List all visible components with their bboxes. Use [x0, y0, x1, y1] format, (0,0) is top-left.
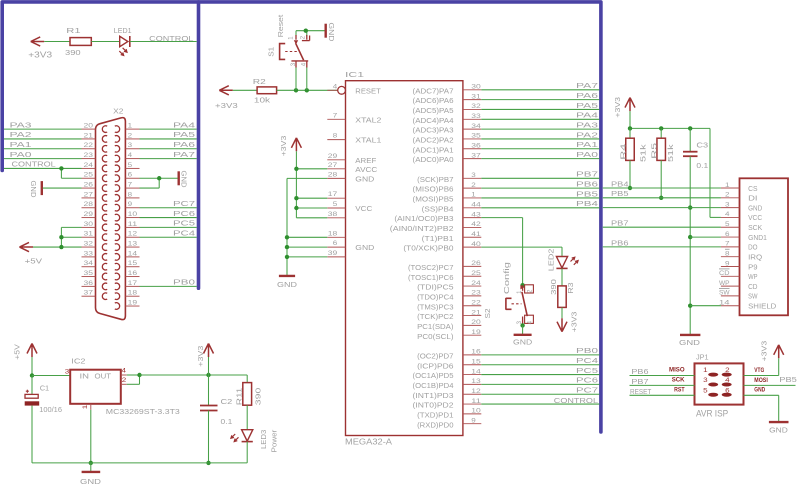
IC1 pin 13 (OC1B)PD4 [413, 378, 482, 390]
svg-text:PA2: PA2 [576, 130, 598, 139]
svg-text:(ADC1)PA1: (ADC1)PA1 [413, 145, 454, 154]
svg-text:33: 33 [471, 113, 481, 120]
wire IC1 PB0 to LED2 [481, 247, 562, 256]
svg-text:Power: Power [269, 429, 278, 452]
wire net PB4 (bus to card CS, via R4) [603, 187, 721, 189]
svg-text:+3V3: +3V3 [569, 312, 578, 333]
IC1 pin 30 (ADC7)PA7 [413, 84, 482, 96]
net label PA5 [173, 130, 195, 139]
net label PA6 [173, 140, 195, 149]
wire net PA1 (bus to X2) [4, 148, 82, 150]
X2 pin 23 [82, 152, 96, 159]
net label PA2 [10, 130, 32, 139]
svg-text:XTAL1: XTAL1 [355, 136, 381, 145]
svg-text:4: 4 [725, 377, 730, 384]
svg-text:DO: DO [748, 243, 758, 252]
wire net CONTROL (bus to X2 pins 24/25) [4, 166, 82, 178]
X2 pin 11 [125, 221, 139, 228]
svg-text:GND: GND [29, 181, 38, 199]
wire net PB6 (bus to card DO) [603, 246, 721, 248]
svg-text:PB7: PB7 [631, 377, 648, 386]
net label RESET [630, 387, 652, 396]
wire net PB5 (bus to card DI, via R5) [603, 197, 721, 199]
svg-text:(ADC7)PA7: (ADC7)PA7 [413, 86, 454, 95]
wire net +3V3 (top rail to VCC) [628, 111, 721, 217]
JP1 signal names [669, 367, 768, 394]
svg-text:19: 19 [128, 299, 138, 306]
svg-text:GND: GND [355, 243, 375, 252]
wire net PA1 (IC1 to bus) [481, 148, 599, 150]
wire R4 to PB4 net [628, 160, 632, 190]
svg-text:27: 27 [328, 162, 338, 169]
svg-text:GND: GND [180, 171, 189, 189]
wire net PA2 (bus to X2) [4, 138, 82, 140]
svg-text:PC6: PC6 [576, 376, 598, 385]
wire net PB5 (JP1 MOSI) [744, 384, 796, 386]
wire net PB5 (IC1 to bus) [481, 197, 599, 199]
svg-text:PC6: PC6 [173, 209, 195, 218]
svg-text:PB6: PB6 [611, 238, 629, 247]
svg-text:PB4: PB4 [576, 199, 598, 208]
svg-text:27: 27 [84, 191, 94, 198]
IC1 pin 41 (T1)PB1 [422, 231, 482, 243]
supply +3V3 (up arrow above C2) [196, 344, 214, 367]
svg-text:CD: CD [719, 270, 730, 277]
net label PB5 [779, 375, 797, 384]
svg-text:(RXD)PD0: (RXD)PD0 [417, 420, 453, 429]
card pin 3 GND [721, 201, 763, 212]
svg-text:36: 36 [84, 280, 94, 287]
svg-text:31: 31 [471, 93, 481, 100]
svg-text:+5V: +5V [13, 344, 22, 360]
svg-text:VCC: VCC [748, 213, 763, 222]
wire net PC7 (X2 to bus) [140, 207, 197, 209]
X2 pin 12 [125, 231, 139, 238]
svg-text:15: 15 [471, 358, 481, 365]
svg-text:9: 9 [725, 260, 730, 267]
IC1 pin 43 (AIN1/OC0)PB3 [394, 211, 481, 223]
wire +3V3 to R2 [233, 89, 257, 91]
svg-text:24: 24 [471, 280, 481, 287]
X2 pin 21 [82, 132, 96, 139]
svg-text:(SCK)PB7: (SCK)PB7 [417, 175, 453, 184]
X2 pin 7 [125, 181, 139, 188]
svg-text:22: 22 [471, 299, 481, 306]
wire net PC4 (X2 to bus) [140, 236, 197, 238]
IC1 pin 7 XTAL2 [327, 112, 381, 124]
X2 pin 13 [125, 240, 139, 247]
wire net PA6 (IC1 to bus) [481, 99, 599, 101]
wire net PC6 (IC1 to bus) [481, 383, 599, 385]
wire ground rail (bottom) [32, 462, 247, 464]
net label PC4 [173, 229, 195, 238]
svg-text:32: 32 [84, 240, 94, 247]
ground (below card connector) [679, 335, 701, 347]
svg-text:S1: S1 [266, 47, 275, 57]
connector X2 (DB37) body [96, 106, 126, 319]
svg-text:3: 3 [65, 369, 70, 376]
X2 pin 32 [82, 240, 96, 247]
wire net PC4 (IC1 to bus) [481, 364, 599, 366]
switch S2 (Config) [483, 262, 534, 325]
svg-text:AVCC: AVCC [355, 165, 378, 174]
wire net PB7 (IC1 to bus) [481, 177, 599, 179]
wire LED2 to R3 [561, 269, 563, 286]
wire net PA4 (IC1 to bus) [481, 118, 599, 120]
svg-text:MEGA32-A: MEGA32-A [345, 438, 393, 447]
resistor R4 51k [618, 128, 647, 162]
svg-text:PA7: PA7 [576, 81, 598, 90]
svg-text:XTAL2: XTAL2 [355, 115, 381, 124]
wire net PA4 (X2 to bus) [140, 128, 197, 130]
wire JP1 VTG to +3V3 [744, 358, 779, 375]
svg-text:PC7: PC7 [173, 199, 195, 208]
svg-text:44: 44 [471, 201, 481, 208]
X2 pin 16 [125, 270, 139, 277]
svg-text:(OC1B)PD4: (OC1B)PD4 [413, 381, 454, 390]
wire X2 pin26 to ground [43, 187, 82, 189]
wire card SHIELD pin to ground rail [690, 305, 721, 307]
net label PA7 [576, 81, 598, 90]
X2 pin 35 [82, 270, 96, 277]
IC1 pin 28 GND [327, 171, 375, 183]
ground (below S2) [513, 335, 533, 347]
X2 pin 33 [82, 250, 96, 257]
svg-text:21: 21 [471, 309, 481, 316]
IC1 pin 27 AVCC [327, 162, 378, 174]
net label PA2 [576, 130, 598, 139]
svg-text:IRQ: IRQ [748, 252, 762, 261]
X2 pin 3 [125, 142, 139, 149]
svg-text:S2: S2 [483, 309, 492, 319]
svg-text:4: 4 [333, 83, 338, 90]
svg-text:PA6: PA6 [173, 140, 195, 149]
svg-text:LED1: LED1 [114, 26, 132, 35]
net label PB7 [631, 377, 648, 386]
net label PA1 [576, 140, 598, 149]
net label PC4 [576, 356, 598, 365]
IC1 GND pin name [355, 243, 375, 252]
net label CONTROL [554, 396, 598, 405]
wire net PC5 (IC1 to bus) [481, 374, 599, 376]
svg-text:PA0: PA0 [10, 150, 32, 159]
svg-text:8: 8 [333, 133, 338, 140]
svg-text:18: 18 [128, 290, 138, 297]
wire card GND1 pin to ground rail [690, 236, 721, 238]
IC1 pin 8 XTAL1 [327, 133, 381, 145]
IC1 pin 34 (ADC3)PA3 [413, 123, 482, 135]
svg-text:23: 23 [471, 290, 481, 297]
svg-text:WP: WP [719, 280, 730, 287]
svg-text:(ICP)PD6: (ICP)PD6 [417, 361, 453, 370]
X2 pin 15 [125, 260, 139, 267]
IC1 pin 35 (ADC2)PA2 [413, 133, 482, 145]
svg-text:5: 5 [703, 387, 708, 394]
svg-text:VTG: VTG [754, 367, 764, 374]
wire net CONTROL (LED1 to bus) [130, 41, 197, 43]
svg-text:PA1: PA1 [10, 140, 32, 149]
svg-text:MOSI: MOSI [754, 377, 768, 384]
card pin 5 SCK [721, 221, 762, 232]
svg-text:(AIN1/OC0)PB3: (AIN1/OC0)PB3 [394, 214, 453, 223]
IC1 pin 15 (ICP)PD6 [417, 358, 481, 370]
svg-text:+3V3: +3V3 [28, 50, 52, 59]
svg-text:PB5: PB5 [611, 189, 629, 198]
wire net PA6 (X2 to bus) [140, 148, 197, 150]
net label PA0 [10, 150, 32, 159]
svg-text:+3V3: +3V3 [196, 346, 205, 367]
supply +5V (up arrow, power input) [13, 344, 37, 360]
wire R5 to PB5 net [659, 160, 663, 200]
net label PC5 [576, 366, 598, 375]
svg-text:PA5: PA5 [173, 130, 195, 139]
net label PB0 [576, 346, 598, 355]
card pin 1 CS [721, 182, 758, 193]
wire S1 to ground [296, 29, 325, 33]
net label PA3 [576, 120, 598, 129]
svg-text:(ADC3)PA3: (ADC3)PA3 [413, 126, 454, 135]
svg-text:3: 3 [128, 142, 133, 149]
svg-text:IC1: IC1 [345, 70, 364, 79]
ground (power supply) [80, 463, 102, 486]
svg-text:LED3: LED3 [259, 430, 268, 449]
svg-text:20: 20 [471, 319, 481, 326]
IC1 pin 10 (TXD)PD1 [417, 408, 481, 420]
svg-text:37: 37 [84, 290, 94, 297]
net label PB6 [611, 238, 629, 247]
svg-text:2: 2 [122, 377, 127, 384]
wire net PA5 (X2 to bus) [140, 138, 197, 140]
IC1 pin 42 (AIN0/INT2)PB2 [390, 221, 482, 233]
svg-text:39: 39 [328, 250, 338, 257]
supply +3V3 (up arrow, right section) [613, 97, 635, 118]
svg-text:(TDO)PC4: (TDO)PC4 [417, 292, 453, 301]
svg-text:3: 3 [725, 201, 730, 208]
IC1 pin 38 VCC [327, 211, 345, 218]
svg-text:R4: R4 [618, 144, 627, 160]
svg-text:(TOSC1)PC6: (TOSC1)PC6 [408, 273, 454, 282]
svg-text:1: 1 [725, 182, 730, 189]
svg-text:GND: GND [327, 23, 336, 43]
wire net PB0 (X2 pin 17 to bus) [140, 285, 197, 287]
ground (below IC1 rail) [277, 276, 298, 289]
svg-text:2: 2 [128, 132, 133, 139]
wire net PA7 (X2 to bus) [140, 158, 197, 160]
svg-text:15: 15 [128, 260, 138, 267]
net label PB7 [611, 219, 629, 228]
wire C3 to ground rail [688, 156, 692, 334]
card pin 6 GND1 [721, 231, 767, 242]
svg-text:AREF: AREF [355, 156, 376, 165]
svg-text:2: 2 [471, 182, 476, 189]
svg-text:30: 30 [84, 221, 94, 228]
svg-text:PB6: PB6 [576, 179, 598, 188]
svg-text:(TXD)PD1: (TXD)PD1 [417, 410, 453, 419]
svg-text:CONTROL: CONTROL [149, 34, 193, 43]
wire net PA0 (bus to X2) [4, 158, 82, 160]
wire net PB7 (bus to card SCK) [603, 226, 721, 228]
X2 pin 27 [82, 191, 96, 198]
wire net PA3 (IC1 to bus) [481, 128, 599, 130]
IC1 pin 2 (MISO)PB6 [413, 182, 482, 194]
X2 pin 20 [82, 123, 96, 130]
wire C1 to ground rail [31, 406, 33, 463]
svg-text:390: 390 [65, 48, 81, 57]
svg-text:C3: C3 [696, 141, 708, 150]
connector JP1 AVR ISP body [695, 353, 744, 419]
ground (rotated, X2 pins 6/7) [179, 171, 189, 189]
wire X2 pins 6,7 to ground [140, 176, 178, 188]
svg-text:SCK: SCK [672, 377, 685, 384]
svg-text:3: 3 [471, 172, 476, 179]
ground (below JP1) [769, 422, 789, 434]
svg-text:26: 26 [471, 260, 481, 267]
wire net PB4 (IC1 to bus) [481, 207, 599, 209]
svg-text:SW: SW [748, 292, 758, 301]
svg-text:17: 17 [328, 191, 338, 198]
wire +5V to IC2 IN and C1 [30, 357, 70, 394]
wire IC1 PB3 to S2 [481, 218, 525, 288]
svg-text:100/16: 100/16 [39, 405, 62, 414]
svg-text:PA0: PA0 [576, 150, 598, 159]
IC1 pin 9 (RXD)PD0 [417, 417, 481, 429]
X2 pin 19 [125, 299, 139, 306]
wire net PC6 (X2 to bus) [140, 217, 197, 219]
resistor R3 390 [549, 279, 575, 307]
svg-text:IC2: IC2 [71, 356, 85, 365]
svg-text:PA4: PA4 [173, 120, 195, 129]
svg-text:0.1: 0.1 [221, 417, 233, 426]
svg-text:(T1)PB1: (T1)PB1 [422, 234, 454, 243]
IC1 pin 5 VCC [327, 201, 345, 208]
svg-text:14: 14 [128, 250, 138, 257]
svg-text:(SS)PB4: (SS)PB4 [422, 204, 454, 213]
svg-text:+3V3: +3V3 [613, 97, 622, 118]
svg-text:5: 5 [128, 162, 133, 169]
wire net PA3 (bus to X2) [4, 128, 82, 130]
svg-text:CS: CS [748, 184, 757, 193]
net label PB6 [631, 367, 648, 376]
svg-text:390: 390 [254, 388, 263, 406]
card pin 7 DO [721, 241, 758, 252]
supply +3V3 (left arrow at R2) [215, 86, 238, 110]
svg-text:36: 36 [471, 142, 481, 149]
net label PA0 [576, 150, 598, 159]
svg-text:(ADC2)PA2: (ADC2)PA2 [413, 136, 454, 145]
X2 pin 5 [125, 162, 139, 169]
ground (rotated, at S1) [326, 23, 336, 43]
svg-text:4: 4 [122, 368, 127, 375]
X2 pin 36 [82, 280, 96, 287]
wire net PB7 (to JP1 SCK) [630, 384, 695, 386]
svg-text:PA4: PA4 [576, 111, 598, 120]
svg-text:1: 1 [471, 192, 476, 199]
svg-text:42: 42 [471, 221, 481, 228]
net label PB4 [576, 199, 598, 208]
IC1 pin 23 (TDO)PC4 [417, 290, 481, 302]
X2 pin 25 [82, 172, 96, 179]
IC1 pin 33 (ADC4)PA4 [413, 113, 482, 125]
net label PB0 [173, 278, 195, 287]
svg-text:PA7: PA7 [173, 150, 195, 159]
wire card GND pin to ground rail [603, 207, 721, 209]
IC1 pin 24 (TDI)PC5 [417, 280, 481, 292]
svg-text:PA3: PA3 [10, 120, 32, 129]
net label PA6 [576, 91, 598, 100]
svg-text:8: 8 [725, 250, 730, 257]
svg-text:26: 26 [84, 181, 94, 188]
supply +3V3 (up arrow at JP1 VTG) [759, 341, 783, 362]
svg-text:9: 9 [128, 201, 133, 208]
svg-text:7: 7 [128, 181, 133, 188]
svg-text:22: 22 [84, 142, 94, 149]
resistor R5 51k [649, 128, 675, 162]
svg-text:2: 2 [725, 192, 730, 199]
svg-text:PC7: PC7 [576, 386, 598, 395]
svg-text:13: 13 [128, 240, 138, 247]
net label PC6 [576, 376, 598, 385]
svg-text:RESET: RESET [630, 387, 652, 396]
svg-text:CONTROL: CONTROL [12, 160, 56, 169]
svg-text:DI: DI [748, 194, 757, 203]
svg-text:14: 14 [471, 368, 481, 375]
net label PA7 [173, 150, 195, 159]
JP1 pads [708, 373, 732, 397]
svg-text:MC33269ST-3.3T3: MC33269ST-3.3T3 [106, 407, 180, 416]
svg-text:PC5: PC5 [576, 366, 598, 375]
svg-text:+3V3: +3V3 [759, 341, 768, 362]
svg-text:(MOSI)PB5: (MOSI)PB5 [413, 195, 454, 204]
svg-text:JP1: JP1 [696, 353, 709, 362]
wire R2 to IC1 RESET (net with S1) [277, 88, 338, 92]
X2 pin 2 [125, 132, 139, 139]
svg-text:16: 16 [128, 270, 138, 277]
svg-text:SHIELD: SHIELD [748, 302, 777, 311]
net label PA3 [10, 120, 32, 129]
X2 pin 26 [82, 181, 96, 188]
svg-text:AVR ISP: AVR ISP [696, 408, 728, 418]
svg-text:PB7: PB7 [611, 219, 629, 228]
net label PC5 [173, 219, 195, 228]
svg-text:PA1: PA1 [576, 140, 598, 149]
svg-text:RST: RST [674, 387, 685, 394]
svg-text:PC1(SDA): PC1(SDA) [417, 322, 454, 331]
IC1 pin 44 (SS)PB4 [422, 201, 482, 213]
svg-text:37: 37 [471, 152, 481, 159]
card pin 8 IRQ [721, 249, 762, 261]
svg-text:19: 19 [471, 329, 481, 336]
supply +3V3 (left arrow, top-left) [28, 37, 52, 59]
bus branch vertical at x=198.5 [197, 2, 201, 288]
svg-text:43: 43 [471, 211, 481, 218]
svg-text:GND: GND [80, 477, 102, 486]
wire net PA7 (IC1 to bus) [481, 89, 599, 91]
wire R1 to LED1 [91, 41, 119, 43]
supply +3V3 (up arrow, AVCC/VCC rail) [279, 136, 302, 157]
svg-text:GND: GND [748, 203, 763, 212]
svg-text:Reset: Reset [276, 14, 285, 38]
svg-text:28: 28 [328, 171, 338, 178]
svg-text:OUT: OUT [95, 371, 112, 380]
svg-text:GND: GND [513, 337, 533, 346]
svg-text:PB6: PB6 [631, 367, 648, 376]
svg-text:PC4: PC4 [173, 229, 195, 238]
svg-text:11: 11 [128, 221, 138, 228]
svg-text:9: 9 [471, 417, 476, 424]
svg-text:PB0: PB0 [173, 278, 195, 287]
net label PA5 [576, 101, 598, 110]
X2 pin 24 [82, 162, 96, 169]
